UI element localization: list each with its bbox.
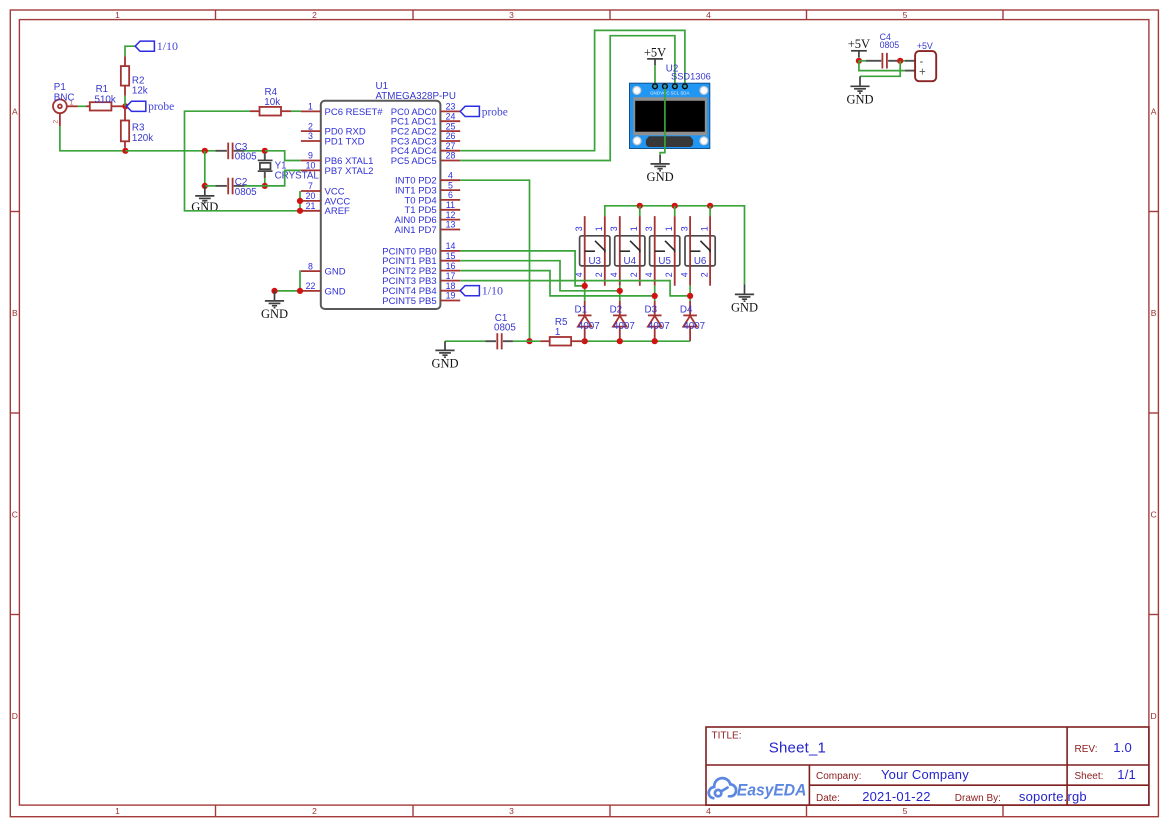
junction bbox=[297, 288, 303, 294]
ground bbox=[731, 285, 758, 315]
wire bbox=[660, 88, 665, 154]
svg-text:CRYSTAL: CRYSTAL bbox=[275, 170, 320, 181]
wire bbox=[60, 126, 126, 151]
svg-text:U6: U6 bbox=[694, 256, 707, 267]
svg-text:3: 3 bbox=[509, 806, 514, 816]
svg-text:B: B bbox=[12, 308, 18, 318]
junction bbox=[582, 338, 588, 344]
svg-text:PC6 RESET#: PC6 RESET# bbox=[325, 107, 384, 118]
svg-text:15: 15 bbox=[446, 251, 456, 261]
svg-text:A: A bbox=[1151, 107, 1157, 117]
wire bbox=[291, 110, 301, 112]
svg-text:2: 2 bbox=[308, 121, 313, 131]
svg-text:11: 11 bbox=[446, 200, 455, 210]
capacitor C2 0805 bbox=[215, 177, 257, 198]
svg-text:3: 3 bbox=[609, 226, 619, 231]
svg-text:9: 9 bbox=[308, 151, 313, 161]
svg-text:4: 4 bbox=[609, 272, 619, 277]
wire bbox=[125, 150, 215, 152]
wire bbox=[299, 191, 301, 211]
wire bbox=[585, 340, 690, 342]
junction bbox=[617, 338, 623, 344]
wire bbox=[858, 57, 860, 61]
svg-text:8: 8 bbox=[308, 261, 313, 271]
svg-text:1: 1 bbox=[700, 226, 710, 231]
svg-text:4007: 4007 bbox=[613, 321, 635, 332]
svg-text:3: 3 bbox=[574, 226, 584, 231]
svg-text:1: 1 bbox=[629, 226, 639, 231]
wire bbox=[460, 251, 585, 286]
svg-text:4: 4 bbox=[706, 806, 711, 816]
svg-text:REV:: REV: bbox=[1075, 744, 1098, 755]
wire bbox=[264, 178, 266, 186]
svg-text:Sheet_1: Sheet_1 bbox=[769, 739, 826, 756]
junction bbox=[672, 203, 678, 209]
wire bbox=[905, 60, 915, 62]
svg-text:4: 4 bbox=[680, 272, 690, 277]
svg-text:B: B bbox=[1151, 308, 1157, 318]
junction bbox=[707, 203, 713, 209]
diode D3 4007 bbox=[645, 301, 670, 341]
svg-text:Drawn By:: Drawn By: bbox=[955, 793, 1001, 804]
ground bbox=[846, 76, 873, 106]
svg-text:1/10: 1/10 bbox=[157, 39, 178, 53]
svg-text:24: 24 bbox=[446, 111, 456, 121]
resistor R3 120k bbox=[121, 106, 153, 147]
svg-text:21: 21 bbox=[306, 201, 316, 211]
svg-text:PB7 XTAL2: PB7 XTAL2 bbox=[325, 166, 374, 177]
svg-text:2: 2 bbox=[664, 272, 674, 277]
svg-text:12k: 12k bbox=[132, 86, 148, 97]
wire bbox=[619, 286, 621, 301]
wire bbox=[299, 271, 302, 291]
svg-text:19: 19 bbox=[446, 291, 456, 301]
svg-text:16: 16 bbox=[446, 261, 456, 271]
svg-text:7: 7 bbox=[308, 181, 313, 191]
svg-text:1: 1 bbox=[115, 806, 120, 816]
svg-text:GND: GND bbox=[191, 200, 218, 214]
svg-text:27: 27 bbox=[446, 141, 456, 151]
svg-text:26: 26 bbox=[446, 131, 456, 141]
svg-text:13: 13 bbox=[446, 220, 456, 230]
svg-text:18: 18 bbox=[446, 281, 456, 291]
svg-text:Date:: Date: bbox=[816, 793, 840, 804]
svg-text:Company:: Company: bbox=[816, 771, 862, 782]
junction bbox=[262, 183, 268, 189]
svg-text:4: 4 bbox=[448, 170, 453, 180]
junction bbox=[262, 148, 268, 154]
svg-text:SSD1306: SSD1306 bbox=[671, 71, 711, 81]
svg-text:PCINT5 PB5: PCINT5 PB5 bbox=[382, 296, 436, 307]
svg-text:+5V: +5V bbox=[917, 41, 933, 51]
svg-text:17: 17 bbox=[446, 271, 456, 281]
junction bbox=[297, 198, 303, 204]
svg-text:ATMEGA328P-PU: ATMEGA328P-PU bbox=[376, 91, 456, 102]
diode D1 4007 bbox=[575, 301, 600, 341]
net label 1/10 bbox=[460, 284, 503, 298]
svg-text:10k: 10k bbox=[264, 97, 280, 108]
svg-text:2021-01-22: 2021-01-22 bbox=[862, 789, 931, 804]
wire bbox=[445, 340, 486, 342]
wire bbox=[513, 340, 540, 342]
svg-text:1: 1 bbox=[115, 10, 120, 20]
svg-text:1.0: 1.0 bbox=[1113, 740, 1132, 755]
switch U6 bbox=[680, 216, 716, 286]
svg-text:EasyEDA: EasyEDA bbox=[737, 781, 807, 800]
wire bbox=[905, 70, 915, 72]
wire bbox=[185, 111, 301, 211]
wire bbox=[265, 170, 301, 186]
svg-text:0805: 0805 bbox=[880, 40, 900, 50]
switch U3 bbox=[574, 216, 610, 286]
svg-text:D2: D2 bbox=[610, 305, 623, 316]
wire bbox=[205, 185, 216, 187]
wire bbox=[78, 105, 87, 107]
junction bbox=[652, 293, 658, 299]
resistor R4 10k bbox=[250, 87, 291, 116]
svg-text:A: A bbox=[12, 107, 18, 117]
wire bbox=[124, 148, 126, 151]
ground bbox=[261, 291, 288, 321]
wire bbox=[709, 206, 711, 216]
junction bbox=[687, 293, 693, 299]
svg-text:20: 20 bbox=[306, 191, 316, 201]
svg-text:probe: probe bbox=[148, 101, 174, 113]
wire bbox=[125, 46, 135, 56]
svg-text:12: 12 bbox=[446, 210, 456, 220]
svg-text:SCL: SCL bbox=[671, 91, 680, 96]
svg-text:23: 23 bbox=[446, 102, 456, 112]
svg-text:5: 5 bbox=[448, 180, 453, 190]
svg-text:GND: GND bbox=[431, 356, 458, 370]
wire bbox=[460, 36, 675, 161]
svg-text:PC5 ADC5: PC5 ADC5 bbox=[391, 156, 437, 167]
svg-text:1: 1 bbox=[555, 327, 560, 338]
svg-text:6: 6 bbox=[448, 190, 453, 200]
svg-text:0805: 0805 bbox=[235, 152, 257, 163]
wire bbox=[204, 151, 206, 186]
switch U4 bbox=[609, 216, 645, 286]
connector +5V header bbox=[915, 41, 936, 81]
svg-text:AREF: AREF bbox=[325, 206, 351, 217]
svg-text:D: D bbox=[1151, 711, 1157, 721]
svg-text:D: D bbox=[12, 711, 18, 721]
wire bbox=[245, 185, 265, 187]
svg-text:D4: D4 bbox=[680, 305, 693, 316]
wire bbox=[674, 206, 676, 216]
capacitor C3 0805 bbox=[215, 142, 257, 163]
svg-text:GND: GND bbox=[325, 286, 346, 297]
junction bbox=[582, 283, 588, 289]
svg-text:0805: 0805 bbox=[494, 323, 516, 334]
svg-text:5: 5 bbox=[903, 806, 908, 816]
svg-text:1: 1 bbox=[594, 226, 604, 231]
svg-text:2: 2 bbox=[312, 10, 317, 20]
svg-text:GND: GND bbox=[731, 300, 758, 314]
wire bbox=[584, 286, 586, 301]
ground bbox=[647, 155, 674, 184]
wire bbox=[460, 180, 529, 341]
diode D2 4007 bbox=[610, 301, 635, 341]
svg-text:probe: probe bbox=[482, 106, 508, 118]
svg-text:2: 2 bbox=[594, 272, 604, 277]
svg-text:BNC: BNC bbox=[54, 92, 75, 103]
svg-text:C: C bbox=[12, 510, 18, 520]
wire bbox=[689, 286, 691, 301]
svg-text:3: 3 bbox=[308, 131, 313, 141]
svg-text:4007: 4007 bbox=[683, 321, 705, 332]
capacitor C1 0805 bbox=[486, 313, 517, 349]
wire bbox=[460, 261, 620, 291]
power +5V bbox=[644, 45, 666, 65]
svg-text:1/10: 1/10 bbox=[482, 284, 503, 298]
svg-text:1: 1 bbox=[664, 226, 674, 231]
svg-text:Your Company: Your Company bbox=[881, 767, 969, 782]
wire bbox=[460, 271, 655, 296]
op-amp U1 ATMEGA328P-PU bbox=[301, 81, 460, 309]
svg-text:2: 2 bbox=[629, 272, 639, 277]
wire bbox=[605, 206, 745, 285]
wire bbox=[245, 150, 265, 152]
svg-text:4: 4 bbox=[706, 10, 711, 20]
svg-text:3: 3 bbox=[680, 226, 690, 231]
svg-text:3: 3 bbox=[644, 226, 654, 231]
junction bbox=[271, 288, 277, 294]
ground bbox=[191, 186, 218, 214]
svg-text:1/1: 1/1 bbox=[1117, 767, 1136, 782]
svg-text:GND: GND bbox=[261, 307, 288, 321]
svg-text:+5V: +5V bbox=[848, 37, 870, 51]
svg-text:1: 1 bbox=[308, 102, 313, 112]
junction bbox=[637, 203, 643, 209]
switch U5 bbox=[644, 216, 680, 286]
svg-text:U4: U4 bbox=[624, 256, 637, 267]
diode D4 4007 bbox=[680, 301, 705, 341]
svg-text:22: 22 bbox=[306, 281, 316, 291]
power +5V bbox=[848, 37, 870, 57]
svg-text:Sheet:: Sheet: bbox=[1075, 771, 1104, 782]
svg-text:+5V: +5V bbox=[644, 45, 666, 59]
svg-text:AIN1 PD7: AIN1 PD7 bbox=[394, 225, 436, 236]
wire bbox=[265, 151, 301, 161]
svg-text:C: C bbox=[1151, 510, 1157, 520]
svg-text:4007: 4007 bbox=[648, 321, 670, 332]
svg-text:2: 2 bbox=[53, 120, 60, 124]
svg-text:0805: 0805 bbox=[235, 187, 257, 198]
svg-text:510k: 510k bbox=[95, 94, 116, 105]
svg-text:120k: 120k bbox=[132, 133, 153, 144]
junction bbox=[202, 148, 208, 154]
ground bbox=[431, 341, 458, 370]
svg-text:5: 5 bbox=[903, 10, 908, 20]
EasyEDA logo bbox=[709, 778, 736, 798]
svg-text:PD1 TXD: PD1 TXD bbox=[325, 136, 365, 147]
svg-text:GND: GND bbox=[647, 170, 674, 184]
net label probe bbox=[460, 106, 508, 118]
wire bbox=[859, 61, 905, 71]
svg-text:28: 28 bbox=[446, 151, 456, 161]
svg-text:10: 10 bbox=[306, 161, 316, 171]
svg-text:14: 14 bbox=[446, 241, 456, 251]
junction bbox=[652, 338, 658, 344]
junction probe node bbox=[122, 103, 128, 109]
svg-text:TITLE:: TITLE: bbox=[712, 730, 742, 741]
connector P1 BNC bbox=[53, 82, 78, 126]
wire bbox=[124, 96, 126, 107]
crystal Y1 bbox=[258, 153, 320, 181]
junction bbox=[122, 148, 128, 154]
svg-text:soporte.rgb: soporte.rgb bbox=[1019, 789, 1087, 804]
junction bbox=[617, 288, 623, 294]
svg-text:U3: U3 bbox=[588, 256, 601, 267]
wire bbox=[860, 61, 900, 77]
wire bbox=[460, 281, 690, 296]
net label probe bbox=[127, 101, 175, 113]
resistor R2 12k bbox=[121, 56, 148, 96]
svg-text:D1: D1 bbox=[575, 305, 588, 316]
wire bbox=[639, 206, 641, 216]
svg-text:GND: GND bbox=[846, 92, 873, 106]
junction bbox=[897, 58, 903, 64]
display module U2 SSD1306 bbox=[630, 64, 711, 149]
wire bbox=[460, 30, 685, 150]
wire bbox=[275, 290, 301, 292]
svg-text:SDA: SDA bbox=[680, 91, 689, 96]
svg-text:GND: GND bbox=[325, 267, 346, 278]
svg-text:4007: 4007 bbox=[578, 321, 600, 332]
svg-text:2: 2 bbox=[312, 806, 317, 816]
junction bbox=[202, 183, 208, 189]
svg-text:+: + bbox=[919, 66, 926, 78]
svg-text:2: 2 bbox=[700, 272, 710, 277]
svg-text:3: 3 bbox=[509, 10, 514, 20]
capacitor C4 0805 bbox=[859, 32, 899, 69]
junction bbox=[526, 338, 532, 344]
wire bbox=[654, 286, 656, 301]
svg-text:D3: D3 bbox=[645, 305, 658, 316]
wire bbox=[898, 60, 906, 62]
svg-text:U5: U5 bbox=[658, 256, 671, 267]
resistor R5 1 bbox=[540, 317, 584, 346]
junction bbox=[856, 58, 862, 64]
wire bbox=[654, 65, 656, 84]
net label 1/10 bbox=[135, 39, 178, 53]
svg-text:4: 4 bbox=[644, 272, 654, 277]
resistor R1 510k bbox=[86, 84, 125, 110]
junction bbox=[297, 208, 303, 214]
svg-text:GND: GND bbox=[650, 91, 660, 96]
svg-text:25: 25 bbox=[446, 121, 456, 131]
